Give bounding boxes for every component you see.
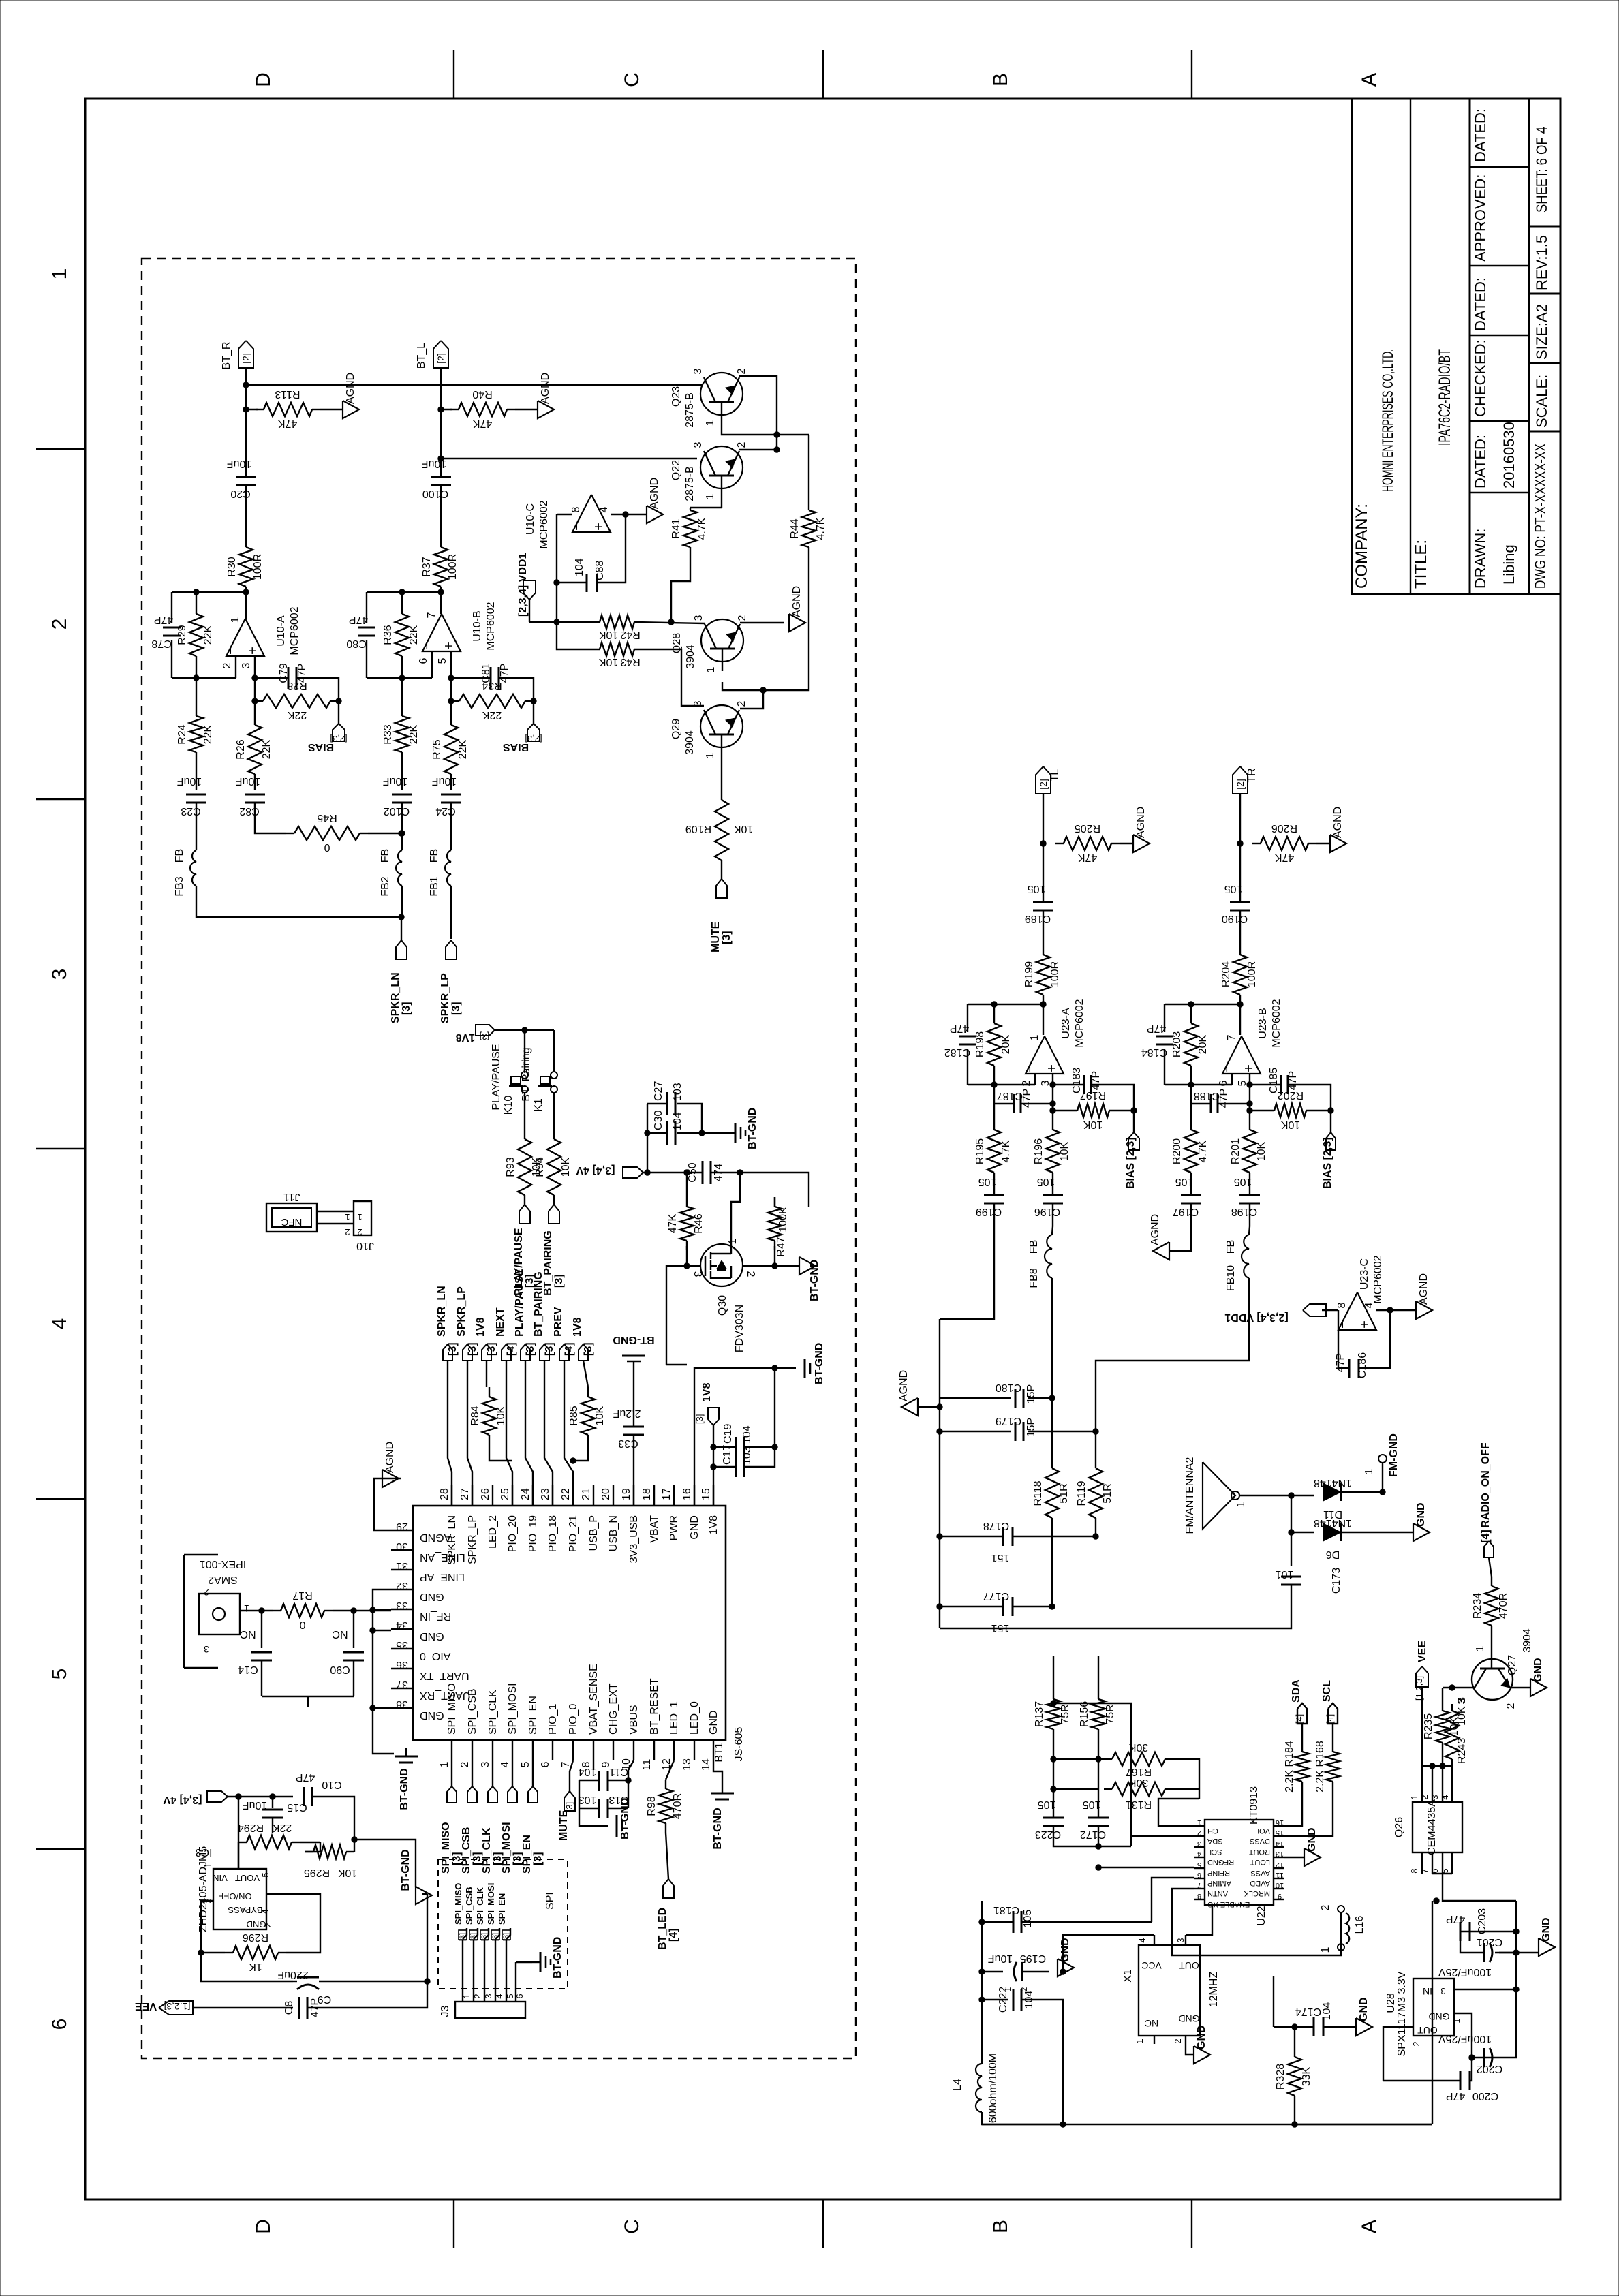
svg-text:SPI_MOSI: SPI_MOSI <box>501 1822 512 1874</box>
ground AGND <box>1416 1273 1432 1319</box>
svg-text:105: 105 <box>1224 883 1243 895</box>
ground GND <box>1058 1938 1074 1976</box>
svg-text:1K: 1K <box>249 1961 262 1972</box>
svg-text:103: 103 <box>741 1446 753 1465</box>
wire R118 bot <box>1049 1518 1055 1609</box>
svg-text:3: 3 <box>1440 1986 1445 1996</box>
IC BT1 left pins <box>391 1521 470 1721</box>
svg-text:AGND: AGND <box>649 478 660 509</box>
net flag MUTE [3] <box>710 921 733 952</box>
svg-text:47P: 47P <box>950 1023 969 1034</box>
net flag 1V8 <box>475 1317 497 1356</box>
cap C78 branch <box>163 592 181 678</box>
resistor R197 <box>1053 1089 1134 1130</box>
svg-text:22K: 22K <box>408 625 420 645</box>
transistor Q22 <box>670 441 747 501</box>
wire VEE row <box>193 2007 293 2008</box>
wire C15 bot <box>272 1818 273 1833</box>
title block col2 dividers <box>1529 226 1560 431</box>
resistor R24 <box>176 678 214 790</box>
svg-text:SPI_CLK: SPI_CLK <box>475 1887 485 1925</box>
transistor Q27 <box>1456 1628 1533 1709</box>
svg-text:IPEX-001: IPEX-001 <box>200 1558 247 1570</box>
wire X1 out <box>1186 1905 1212 1945</box>
wire C30 rails <box>647 1104 727 1136</box>
resistor <box>1445 1704 1459 1766</box>
svg-text:1: 1 <box>1135 2038 1145 2043</box>
svg-text:10K: 10K <box>337 1867 357 1878</box>
svg-text:4: 4 <box>499 1761 511 1767</box>
label C188 <box>1194 1089 1230 1108</box>
wire C8 right <box>308 1894 427 2008</box>
svg-text:R36: R36 <box>382 625 394 645</box>
svg-text:D: D <box>252 72 275 87</box>
svg-text:BT-GND: BT-GND <box>399 1768 410 1810</box>
svg-text:1V8: 1V8 <box>572 1317 583 1337</box>
label K10 <box>491 1044 514 1115</box>
wire C190-res <box>1239 910 1241 955</box>
svg-text:151: 151 <box>991 1552 1010 1564</box>
svg-text:AGND: AGND <box>791 586 803 617</box>
wire x1 gnd stub <box>1186 2051 1194 2055</box>
wire ic3 left pins <box>201 1901 213 1935</box>
svg-text:2: 2 <box>204 1587 209 1598</box>
svg-text:SPKR_LP: SPKR_LP <box>440 973 451 1023</box>
svg-text:GND: GND <box>1060 1938 1071 1962</box>
wire 1V8-keys <box>495 1027 554 1072</box>
svg-text:4: 4 <box>1363 1302 1375 1308</box>
flag BT_PAIRING flag d <box>540 1344 549 1361</box>
SPI header signals <box>453 1883 515 2002</box>
svg-text:100uF/25V: 100uF/25V <box>1438 1966 1492 1978</box>
svg-text:CHG_EXT: CHG_EXT <box>608 1683 619 1735</box>
svg-text:SPI_MISO: SPI_MISO <box>453 1883 463 1925</box>
svg-text:10uF: 10uF <box>383 775 408 787</box>
svg-text:5: 5 <box>48 1669 71 1680</box>
U10C power rail <box>557 506 626 514</box>
svg-text:GND: GND <box>420 1591 444 1602</box>
wire C17C19 taps <box>713 1368 777 1467</box>
capacitor C172 <box>1080 1799 1109 1840</box>
flag BT_PAIRING flag <box>549 1205 559 1224</box>
svg-text:R75: R75 <box>431 739 443 759</box>
wire Q28 c <box>740 622 784 623</box>
flag BT_R [2] <box>238 341 253 368</box>
svg-text:47P: 47P <box>154 614 173 625</box>
svg-text:47P: 47P <box>1090 1071 1102 1090</box>
svg-text:2875-B: 2875-B <box>684 392 696 428</box>
wire VDD1 rail <box>529 583 600 625</box>
wire SPI_CLK drop <box>492 1760 493 1786</box>
wire FB8 col <box>1049 1220 1055 1468</box>
cap C178 <box>983 1520 1013 1564</box>
ground btgnd caps <box>579 1798 631 1840</box>
capacitor <box>667 1092 675 1115</box>
svg-text:MCP6002: MCP6002 <box>1271 999 1282 1047</box>
svg-text:AGND: AGND <box>384 1442 396 1473</box>
label FB1 <box>429 849 440 897</box>
wire c195 row <box>979 1969 1008 2000</box>
svg-text:100R: 100R <box>1049 961 1061 987</box>
wire R200 top <box>1190 1104 1192 1130</box>
wire C189-res <box>1043 910 1044 955</box>
svg-text:PLAY/PAUSE: PLAY/PAUSE <box>491 1044 502 1110</box>
resistor R84 <box>469 1387 507 1444</box>
svg-text:4: 4 <box>260 1909 271 1914</box>
svg-text:GND: GND <box>689 1515 700 1540</box>
wire agnd bus left <box>918 1406 940 1408</box>
svg-text:1N4148: 1N4148 <box>1314 1517 1352 1529</box>
label FB10 <box>1225 1240 1237 1291</box>
wire C173 col <box>1289 1530 1294 1566</box>
svg-text:[2]: [2] <box>1038 779 1049 790</box>
svg-text:2: 2 <box>221 662 233 668</box>
svg-text:ZHD2405-ADJM5: ZHD2405-ADJM5 <box>198 1846 209 1932</box>
svg-text:6: 6 <box>48 2019 71 2030</box>
svg-text:3: 3 <box>480 1761 491 1767</box>
svg-text:22K: 22K <box>457 739 469 759</box>
wire R206-agnd <box>1316 843 1330 844</box>
svg-text:5: 5 <box>505 1994 515 1998</box>
wire kt antn <box>1172 1889 1341 1955</box>
svg-text:16: 16 <box>1276 1818 1284 1827</box>
label U10-C <box>525 500 550 548</box>
svg-text:SDA: SDA <box>1291 1679 1302 1703</box>
svg-text:105: 105 <box>1083 1799 1101 1810</box>
svg-text:22K: 22K <box>202 724 214 744</box>
svg-text:C8: C8 <box>283 2001 295 2015</box>
label C88 <box>574 558 606 580</box>
wire kt sda scl <box>1284 1791 1333 1836</box>
svg-text:C181: C181 <box>993 1904 1019 1916</box>
svg-text:+: + <box>245 647 260 655</box>
svg-text:BT-GND: BT-GND <box>613 1334 654 1346</box>
transistor Q28 <box>671 615 748 672</box>
net flag RADIO_ON_OFF <box>1480 1442 1492 1543</box>
flag 4V flag q30 <box>623 1167 643 1178</box>
svg-text:BT_L: BT_L <box>416 343 427 369</box>
svg-text:R195: R195 <box>974 1138 986 1164</box>
svg-text:R196: R196 <box>1033 1138 1045 1164</box>
wire TR drop <box>1237 794 1243 902</box>
svg-text:C182: C182 <box>944 1046 970 1058</box>
flag SPKR_LP flag <box>446 940 457 959</box>
net flag SPKR_LN [3] <box>390 972 412 1023</box>
ground AGND <box>1330 807 1346 852</box>
wire R294 net <box>238 1842 320 1869</box>
svg-text:PIO_21: PIO_21 <box>568 1515 579 1552</box>
svg-text:R296: R296 <box>243 1932 268 1943</box>
svg-text:1: 1 <box>705 420 716 426</box>
label C186 <box>1335 1352 1368 1378</box>
svg-text:C189: C189 <box>1025 913 1051 925</box>
resistor R196 <box>1033 1130 1070 1173</box>
flag 1V8 flag d <box>579 1344 588 1361</box>
svg-text:B: B <box>989 73 1012 87</box>
resistor R33 <box>382 678 420 790</box>
svg-text:0: 0 <box>299 1619 305 1630</box>
svg-text:104: 104 <box>579 1766 597 1778</box>
capacitor <box>736 1457 744 1477</box>
flag BIAS flag <box>333 724 345 741</box>
scl flag shape <box>1328 1703 1338 1724</box>
svg-text:[4]: [4] <box>1480 1530 1492 1543</box>
svg-text:4: 4 <box>494 1994 504 1998</box>
wire U10B pin6 <box>367 651 432 681</box>
svg-text:14: 14 <box>700 1758 712 1771</box>
svg-text:SPI_MISO: SPI_MISO <box>440 1822 452 1874</box>
svg-text:BT-GND: BT-GND <box>712 1808 724 1849</box>
svg-text:SPKR_LP: SPKR_LP <box>467 1515 478 1564</box>
capacitor C33 <box>613 1408 644 1449</box>
svg-text:11: 11 <box>641 1759 653 1771</box>
title block col2 text <box>1532 127 1550 589</box>
resistor R206 <box>1252 822 1316 863</box>
antenna FM/ANTENNA2 <box>1184 1457 1247 1534</box>
svg-text:USB_P: USB_P <box>588 1515 600 1551</box>
svg-text:C88: C88 <box>594 561 606 580</box>
flag MUTE2 flag <box>564 1791 575 1811</box>
capacitor C102 <box>383 775 412 817</box>
svg-text:104: 104 <box>672 1112 683 1130</box>
wire 1v8 gnd rail <box>666 1365 796 1506</box>
svg-text:VIN: VIN <box>213 1873 228 1883</box>
svg-text:SPKR_LP: SPKR_LP <box>456 1286 467 1337</box>
capacitor C15 <box>243 1799 307 1818</box>
cap C180 <box>996 1382 1037 1408</box>
svg-text:3904: 3904 <box>684 730 696 755</box>
svg-text:15: 15 <box>700 1488 712 1500</box>
svg-text:C27: C27 <box>653 1081 664 1101</box>
svg-text:R34: R34 <box>482 680 502 692</box>
wire R296 net <box>201 1894 320 1953</box>
wire kt vol <box>1284 1791 1302 1826</box>
label C182 <box>944 1023 970 1058</box>
svg-text:30: 30 <box>396 1540 408 1552</box>
net flag SCL <box>1321 1680 1335 1724</box>
svg-text:R201: R201 <box>1230 1138 1242 1164</box>
wire K1-R94 <box>553 1093 555 1130</box>
cap C11 <box>579 1766 629 1791</box>
flag VDD1 flag2 <box>1303 1304 1326 1316</box>
svg-text:10K: 10K <box>598 656 618 668</box>
svg-text:PWR: PWR <box>668 1515 680 1540</box>
IC U22 KT0913 <box>1205 1786 1274 1926</box>
svg-text:DVSS: DVSS <box>1250 1837 1270 1845</box>
flag BT_LED flag <box>663 1879 674 1898</box>
wire pin8 stub <box>593 1760 594 1770</box>
svg-text:23: 23 <box>540 1488 551 1500</box>
svg-text:22K: 22K <box>272 1822 292 1833</box>
wire loop2 <box>1053 1836 1131 1849</box>
svg-text:1: 1 <box>705 752 716 758</box>
svg-text:6: 6 <box>418 657 429 664</box>
wire caps bot kt <box>1053 1826 1098 1840</box>
svg-text:APPROVED:: APPROVED: <box>1472 174 1489 262</box>
wire X1 nc <box>1154 2036 1155 2044</box>
wire R137 bot <box>1051 1739 1056 1818</box>
svg-text:22K: 22K <box>202 625 214 645</box>
svg-text:C80: C80 <box>346 638 366 649</box>
svg-text:[2,3,4] VDD1: [2,3,4] VDD1 <box>1224 1312 1288 1323</box>
ground AGND <box>343 373 359 418</box>
wire R17-pin33 <box>333 1608 391 1613</box>
svg-text:47K: 47K <box>1077 852 1097 863</box>
wire C23-FB3 <box>196 803 197 850</box>
op-amp U23-T <box>1218 1034 1261 1086</box>
svg-text:37: 37 <box>396 1679 408 1690</box>
svg-text:3: 3 <box>1430 1795 1440 1799</box>
svg-text:[3,4] 4V: [3,4] 4V <box>163 1794 202 1805</box>
wire scl drop <box>1332 1724 1333 1742</box>
cap C174 <box>1295 2002 1333 2036</box>
resistor R17 <box>273 1589 333 1630</box>
svg-text:AIO_0: AIO_0 <box>420 1650 450 1662</box>
svg-text:6: 6 <box>1430 1868 1440 1873</box>
svg-text:47K: 47K <box>667 1213 679 1233</box>
capacitor C82 <box>236 775 265 817</box>
wire FB2-SPKRLN rail <box>401 886 403 917</box>
wire C24-FB1 <box>450 803 452 850</box>
net flag BT_R <box>221 342 232 370</box>
svg-text:GND: GND <box>1196 2025 1207 2049</box>
svg-text:NC: NC <box>240 1628 256 1640</box>
wire C200 net <box>1383 2071 1472 2081</box>
svg-text:7: 7 <box>1197 1881 1201 1889</box>
connector J11 <box>266 1191 317 1232</box>
net flag 4V q30 <box>576 1164 615 1176</box>
svg-text:1N4148: 1N4148 <box>1314 1477 1352 1489</box>
wire R156 bot <box>1096 1739 1101 1818</box>
sda flag shape <box>1297 1703 1307 1724</box>
svg-text:10uF: 10uF <box>422 458 447 469</box>
wire R44 col <box>808 435 810 508</box>
net flag TR <box>1246 768 1258 782</box>
svg-text:VBAT: VBAT <box>649 1515 660 1543</box>
svg-text:C186: C186 <box>1357 1352 1368 1378</box>
svg-text:LED_1: LED_1 <box>668 1701 680 1735</box>
wire J11-J10 <box>317 1211 354 1224</box>
net flag SPKR_LP <box>456 1286 478 1356</box>
capacitor C8 <box>283 1997 321 2019</box>
svg-text:ENABLE XO: ENABLE XO <box>1207 1900 1250 1908</box>
wire R205-agnd <box>1120 843 1133 844</box>
svg-text:9: 9 <box>1278 1892 1282 1900</box>
svg-text:−: − <box>420 642 435 650</box>
svg-text:4.7K: 4.7K <box>1197 1140 1209 1162</box>
wire SPI_MOSI drop <box>512 1760 513 1786</box>
label R243 <box>1456 1697 1468 1764</box>
svg-text:104: 104 <box>741 1425 753 1444</box>
svg-text:BT_RESET: BT_RESET <box>649 1678 660 1735</box>
resistor R43 <box>598 642 640 668</box>
svg-text:FB8: FB8 <box>1028 1268 1040 1288</box>
switch K1 <box>538 1072 557 1093</box>
svg-text:R42: R42 <box>620 629 640 640</box>
flag SPI_CSB flag <box>467 1786 477 1803</box>
wire R43 row <box>557 622 600 649</box>
wire fm hbus2 <box>940 1431 1096 1432</box>
flag BIAS TR <box>1326 1132 1336 1150</box>
net flag VEE l <box>135 2000 191 2012</box>
svg-text:R328: R328 <box>1275 2064 1286 2090</box>
svg-text:R41: R41 <box>670 518 682 538</box>
svg-text:8: 8 <box>570 506 582 512</box>
svg-text:3: 3 <box>204 1644 209 1655</box>
ground BT-GND <box>727 1108 758 1149</box>
svg-text:4: 4 <box>1197 1850 1201 1858</box>
capacitor <box>667 1121 675 1145</box>
svg-text:Q29: Q29 <box>670 719 682 739</box>
svg-text:4: 4 <box>598 506 610 512</box>
capacitor C20 <box>227 458 256 499</box>
svg-text:2: 2 <box>357 1227 362 1237</box>
capacitor C181 <box>993 1904 1034 1933</box>
svg-text:C223: C223 <box>1035 1829 1061 1840</box>
wire BT_L vertical <box>438 368 444 477</box>
wire R295-BTGND <box>352 1837 416 1887</box>
svg-text:28: 28 <box>439 1488 450 1500</box>
net flag PLAY/PAUSE <box>514 1269 536 1356</box>
cap C14 <box>238 1611 272 1696</box>
svg-text:C78: C78 <box>151 638 171 649</box>
flag SPKR_LN flag d <box>443 1344 452 1361</box>
flag 1V8 flag k <box>476 1025 495 1042</box>
label C173 fix2 <box>0 0 1 1</box>
svg-text:47P: 47P <box>499 664 510 683</box>
svg-text:K1: K1 <box>533 1098 544 1112</box>
svg-text:U23-C: U23-C <box>1359 1258 1370 1290</box>
cap C201 <box>1438 1936 1503 1978</box>
svg-text:R294: R294 <box>238 1822 264 1833</box>
capacitor C197 <box>1173 1176 1201 1217</box>
svg-text:SCALE:: SCALE: <box>1533 375 1550 428</box>
transistor Q23 <box>670 368 747 427</box>
net flag BIAS TL <box>1125 1137 1137 1189</box>
wire U10B pin5 <box>448 651 454 709</box>
svg-text:3: 3 <box>48 969 71 980</box>
svg-text:C177: C177 <box>983 1590 1009 1602</box>
svg-text:10K: 10K <box>1083 1119 1103 1130</box>
resistor R203 <box>1171 1004 1209 1085</box>
svg-text:104: 104 <box>1321 2002 1333 2021</box>
inductor FB3 <box>190 850 196 886</box>
wire R113-AGND <box>320 409 343 410</box>
wire TR pin- <box>1165 1074 1232 1087</box>
wire Q26 bottom <box>1409 1852 1516 1901</box>
svg-text:13: 13 <box>681 1758 693 1771</box>
svg-text:47P: 47P <box>1446 2090 1465 2102</box>
ground BT-GND <box>532 1937 564 1979</box>
svg-text:[2]: [2] <box>1235 779 1246 790</box>
svg-text:GND: GND <box>1358 1997 1370 2021</box>
svg-text:R17: R17 <box>292 1589 312 1601</box>
wire TL c187 row <box>994 1085 1055 1113</box>
svg-text:GND: GND <box>1306 1827 1318 1852</box>
svg-text:FB2: FB2 <box>380 876 391 896</box>
wire C173 bot <box>940 1585 1291 1628</box>
zone labels <box>48 72 1381 2234</box>
svg-text:13: 13 <box>1276 1850 1284 1858</box>
svg-text:1: 1 <box>1451 2018 1462 2023</box>
svg-text:U22: U22 <box>1256 1906 1267 1925</box>
svg-text:20K: 20K <box>1197 1034 1209 1054</box>
svg-text:J3: J3 <box>440 2005 451 2017</box>
svg-text:FB3: FB3 <box>174 876 185 896</box>
svg-text:3V3_USB: 3V3_USB <box>628 1515 640 1563</box>
wire R37-node-opamp <box>438 589 444 614</box>
svg-text:U10-B: U10-B <box>472 610 483 641</box>
